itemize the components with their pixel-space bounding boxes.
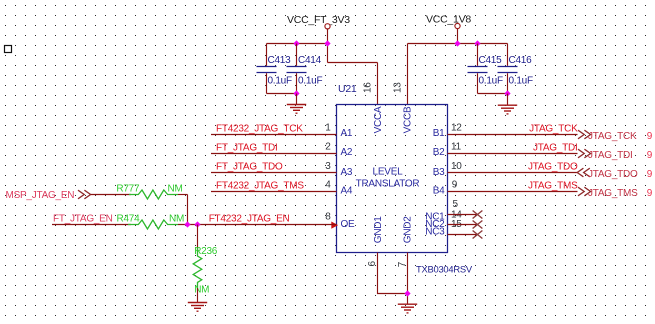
svg-text:9: 9 bbox=[647, 169, 653, 180]
wire R777 to corner bbox=[178, 194, 188, 196]
pin number 15 bbox=[451, 219, 462, 230]
capacitor C413 0.1uF bbox=[257, 44, 292, 94]
svg-text:JTAG_TDO: JTAG_TDO bbox=[528, 161, 578, 172]
junction right caps bottom bbox=[504, 90, 510, 96]
junction C414 tap top bbox=[293, 40, 299, 46]
svg-text:6: 6 bbox=[367, 261, 378, 267]
wire R236 to ground bbox=[197, 288, 199, 302]
svg-text:JTAG_TMS: JTAG_TMS bbox=[528, 180, 578, 191]
wire VCC_FT_3V3 cap rail bbox=[267, 43, 328, 45]
svg-text:C413: C413 bbox=[268, 55, 292, 66]
svg-text:GND2: GND2 bbox=[403, 216, 414, 243]
no-connect X pin 15 bbox=[473, 231, 483, 239]
svg-text:R236: R236 bbox=[194, 246, 218, 257]
OE input arrow bbox=[331, 222, 338, 229]
pin number 1 bbox=[325, 122, 331, 133]
U21 pin names vertical VCCA VCCB GND1 GND2 bbox=[373, 106, 414, 243]
svg-text:JTAG_TDO: JTAG_TDO bbox=[588, 169, 638, 180]
net label FT4232_JTAG_TMS bbox=[216, 180, 304, 191]
wire GND2 pin 7 bbox=[407, 253, 409, 304]
wire pin 5 NC bbox=[448, 214, 478, 216]
svg-text:9: 9 bbox=[647, 131, 653, 142]
wire VCC_FT_3V3 vertical drop bbox=[327, 29, 329, 63]
pin number 8 bbox=[325, 212, 331, 223]
off-page connector JTAG_TDI 9 bbox=[578, 149, 653, 161]
wire caps bottom rail bbox=[267, 93, 297, 95]
power flag VCC_1V8 bbox=[426, 14, 471, 29]
svg-text:2: 2 bbox=[325, 141, 331, 152]
wire pin 10 bbox=[448, 172, 578, 174]
svg-text:FT_JTAG_TDI: FT_JTAG_TDI bbox=[216, 142, 278, 153]
svg-text:TRANSLATOR: TRANSLATOR bbox=[356, 179, 420, 190]
net label FT4232_JTAG_TCK bbox=[216, 123, 303, 134]
off-page connector JTAG_TCK 9 bbox=[578, 130, 653, 142]
sheet origin marker square bbox=[5, 46, 12, 53]
capacitor C416 0.1uF bbox=[498, 44, 533, 94]
wire pin 3 bbox=[211, 172, 337, 174]
wire pin 14 NC bbox=[448, 224, 478, 226]
IC U21 body bbox=[337, 83, 473, 275]
off-page connector MSP_JTAG_EN bbox=[6, 190, 91, 201]
pin number 2 bbox=[325, 141, 331, 152]
svg-text:4: 4 bbox=[325, 179, 331, 190]
pin number 9 bbox=[452, 180, 458, 191]
resistor R474 NM bbox=[117, 213, 185, 229]
pin number 6 bbox=[367, 261, 378, 267]
svg-text:A4: A4 bbox=[341, 185, 353, 196]
svg-text:5: 5 bbox=[453, 199, 459, 210]
no-connect X pin 14 bbox=[473, 221, 483, 229]
wire FT_JTAG_EN to R474 bbox=[52, 224, 131, 226]
svg-text:NM: NM bbox=[169, 213, 184, 224]
wire R777 corner down bbox=[187, 195, 189, 225]
net label JTAG_TDI bbox=[533, 142, 577, 153]
pin number 16 bbox=[362, 82, 373, 93]
wire VCC_1V8 vertical drop bbox=[457, 29, 459, 44]
wire pin 15 NC bbox=[448, 234, 478, 236]
svg-text:FT4232_JTAG_EN: FT4232_JTAG_EN bbox=[209, 214, 290, 225]
svg-text:0.1uF: 0.1uF bbox=[298, 76, 322, 87]
svg-text:C414: C414 bbox=[298, 55, 322, 66]
net label JTAG_TCK bbox=[529, 123, 578, 134]
svg-text:LEVEL: LEVEL bbox=[373, 167, 404, 178]
svg-text:JTAG_TCK: JTAG_TCK bbox=[529, 123, 578, 134]
wire pin 13 vertical bbox=[407, 44, 409, 105]
pin number 4 bbox=[325, 179, 331, 190]
ground R236 bbox=[188, 303, 207, 312]
svg-text:OE: OE bbox=[341, 219, 356, 230]
svg-text:A1: A1 bbox=[341, 128, 353, 139]
svg-text:1: 1 bbox=[325, 122, 331, 133]
power flag VCC_FT_3V3 bbox=[287, 14, 350, 29]
off-page connector JTAG_TMS 9 bbox=[578, 187, 653, 199]
svg-text:9: 9 bbox=[452, 180, 458, 191]
svg-text:VCCB: VCCB bbox=[403, 106, 414, 133]
net label FT_JTAG_EN bbox=[53, 214, 113, 225]
svg-text:MSP_JTAG_EN: MSP_JTAG_EN bbox=[6, 190, 75, 201]
svg-text:GND1: GND1 bbox=[373, 216, 384, 243]
svg-text:R474: R474 bbox=[117, 213, 141, 224]
svg-text:VCC_FT_3V3: VCC_FT_3V3 bbox=[287, 14, 350, 26]
ground caps right bbox=[498, 105, 517, 114]
pin number 10 bbox=[451, 161, 462, 172]
wire ground drop left caps bbox=[296, 94, 298, 105]
svg-text:B1: B1 bbox=[433, 128, 445, 139]
svg-text:B2: B2 bbox=[433, 147, 445, 158]
svg-text:3: 3 bbox=[325, 161, 331, 172]
svg-text:NM: NM bbox=[194, 285, 209, 296]
pin number 3 bbox=[325, 161, 331, 172]
junction R236 tap bbox=[194, 221, 200, 227]
wire ground drop right caps bbox=[507, 94, 509, 106]
svg-text:R777: R777 bbox=[116, 183, 140, 194]
junction VCC_1V8 drop bbox=[454, 40, 460, 46]
svg-text:B3: B3 bbox=[433, 167, 445, 178]
pin number 14 bbox=[451, 210, 462, 221]
svg-text:10: 10 bbox=[451, 161, 462, 172]
svg-text:13: 13 bbox=[392, 82, 403, 93]
net label FT_JTAG_TDI bbox=[216, 142, 278, 153]
svg-text:0.1uF: 0.1uF bbox=[268, 76, 292, 87]
svg-text:9: 9 bbox=[647, 188, 653, 199]
pin number 13 bbox=[392, 82, 403, 93]
svg-text:A2: A2 bbox=[341, 147, 353, 158]
net label JTAG_TMS bbox=[528, 180, 578, 191]
wire pin 16 vertical bbox=[377, 63, 379, 105]
resistor R777 NM bbox=[116, 183, 182, 199]
net label JTAG_TDO bbox=[528, 161, 578, 172]
svg-text:A3: A3 bbox=[341, 167, 353, 178]
capacitor C415 0.1uF bbox=[468, 44, 503, 94]
svg-text:16: 16 bbox=[362, 82, 373, 93]
wire pin 1 bbox=[211, 134, 337, 136]
junction R777 joins EN net bbox=[184, 221, 190, 227]
U21 pin names right bbox=[425, 128, 445, 237]
svg-text:NC3: NC3 bbox=[425, 227, 445, 238]
wire MSP_JTAG_EN to R777 bbox=[91, 194, 131, 196]
pin number 7 bbox=[397, 261, 408, 267]
svg-text:C416: C416 bbox=[509, 55, 533, 66]
svg-text:12: 12 bbox=[451, 122, 462, 133]
svg-text:TXB0304RSV: TXB0304RSV bbox=[416, 264, 473, 275]
svg-text:JTAG_TMS: JTAG_TMS bbox=[588, 188, 638, 199]
net label FT_JTAG_TDO bbox=[216, 161, 283, 172]
junction VCC_FT_3V3 at drop bbox=[324, 40, 330, 46]
svg-text:FT4232_JTAG_TCK: FT4232_JTAG_TCK bbox=[216, 123, 303, 134]
svg-text:VCC_1V8: VCC_1V8 bbox=[426, 14, 471, 26]
capacitor C414 0.1uF bbox=[287, 44, 323, 94]
wire pin 4 bbox=[211, 191, 337, 193]
svg-text:7: 7 bbox=[397, 261, 408, 267]
svg-text:0.1uF: 0.1uF bbox=[479, 76, 503, 87]
junction GND join bbox=[404, 290, 410, 296]
off-page connector JTAG_TDO 9 bbox=[577, 168, 652, 180]
svg-text:JTAG_TCK: JTAG_TCK bbox=[588, 131, 637, 142]
net label FT4232_JTAG_EN bbox=[209, 214, 290, 225]
svg-text:FT_JTAG_TDO: FT_JTAG_TDO bbox=[216, 161, 283, 172]
wire right caps bottom rail bbox=[478, 93, 508, 95]
svg-text:0.1uF: 0.1uF bbox=[509, 76, 533, 87]
wire pin 2 bbox=[211, 153, 337, 155]
pin number 5 bbox=[453, 199, 459, 210]
wire pin 12 bbox=[448, 134, 578, 136]
U21 center label bbox=[356, 167, 420, 190]
svg-text:JTAG_TDI: JTAG_TDI bbox=[533, 142, 577, 153]
svg-text:11: 11 bbox=[451, 141, 462, 152]
wire R474 to OE pin 8 bbox=[178, 224, 337, 226]
U21 pin names left bbox=[341, 128, 356, 230]
wire pin 9 bbox=[448, 191, 578, 193]
pin number 11 bbox=[451, 141, 462, 152]
wire VCC_1V8 rail bbox=[408, 43, 508, 45]
wire pin 11 bbox=[448, 153, 578, 155]
junction C415 tap bbox=[474, 40, 480, 46]
svg-text:U21: U21 bbox=[338, 83, 357, 95]
svg-text:B4: B4 bbox=[433, 185, 445, 196]
resistor R236 NM vertical bbox=[193, 246, 218, 296]
svg-text:VCCA: VCCA bbox=[373, 106, 384, 133]
wire to pin 16 horizontal bbox=[328, 62, 378, 64]
svg-text:8: 8 bbox=[325, 212, 331, 223]
svg-text:FT_JTAG_EN: FT_JTAG_EN bbox=[53, 214, 113, 225]
junction caps bottom bbox=[293, 90, 299, 96]
svg-text:JTAG_TDI: JTAG_TDI bbox=[588, 150, 632, 161]
ground caps left bbox=[287, 105, 306, 114]
no-connect X pin 5 bbox=[473, 211, 483, 219]
svg-text:9: 9 bbox=[647, 150, 653, 161]
wire R236 top bbox=[197, 225, 199, 253]
wire GND1 pin 6 bbox=[378, 253, 408, 294]
svg-text:C415: C415 bbox=[479, 55, 503, 66]
pin number 12 bbox=[451, 122, 462, 133]
svg-text:NM: NM bbox=[168, 183, 183, 194]
ground IC bbox=[398, 304, 417, 313]
svg-text:FT4232_JTAG_TMS: FT4232_JTAG_TMS bbox=[216, 180, 304, 191]
